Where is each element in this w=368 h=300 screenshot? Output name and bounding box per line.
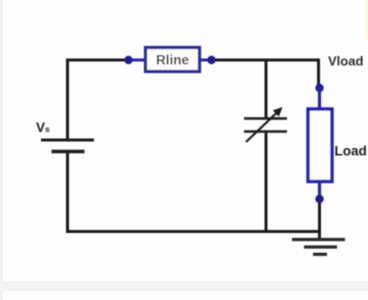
label Vs <box>36 120 50 135</box>
resistor Load <box>308 109 332 182</box>
junction dot below Load <box>315 195 323 203</box>
wire left vertical upper (top wire to Vs) <box>66 59 69 141</box>
svg-text:Vload: Vload <box>328 54 363 69</box>
node Vload junction dot <box>315 84 323 92</box>
wire middle vertical upper (top wire to capacitor) <box>265 59 268 119</box>
label Load <box>335 144 367 159</box>
label Vload <box>328 54 363 69</box>
junction dot right of Rline <box>207 56 215 64</box>
wire blue stub right of Rline <box>199 59 213 62</box>
wire blue stub Vload node to Load top <box>318 88 321 109</box>
label Rline <box>156 53 189 68</box>
wire left vertical lower (Vs to bottom wire) <box>66 152 69 234</box>
wire top horizontal left (Vs top to junction) <box>66 59 130 62</box>
capacitor C1 top plate <box>244 117 287 120</box>
wire right vertical lower (Load to ground) <box>318 199 321 240</box>
wire right vertical upper (corner to Vload node) <box>317 59 320 89</box>
capacitor C1 bottom plate <box>244 130 287 133</box>
capacitor variable arrow <box>246 107 283 142</box>
junction dot left of Rline <box>124 56 132 64</box>
ground <box>292 240 345 255</box>
wire top horizontal right (Rline to Vload corner) <box>211 59 320 62</box>
svg-text:Load: Load <box>335 144 367 159</box>
wire middle vertical lower (capacitor to bottom wire) <box>265 132 268 234</box>
battery Vs negative plate <box>52 150 85 154</box>
wire bottom horizontal <box>66 230 320 233</box>
wire blue stub Load bottom to junction <box>318 181 321 199</box>
battery Vs positive plate <box>41 139 94 142</box>
resistor Rline <box>146 48 200 72</box>
svg-text:Rline: Rline <box>156 53 189 68</box>
wire blue stub left of Rline <box>128 59 146 62</box>
